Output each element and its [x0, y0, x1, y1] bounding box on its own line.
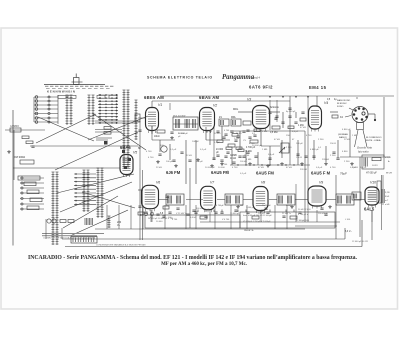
svg-text:0,1 μF: 0,1 μF [170, 149, 177, 151]
svg-text:Sintonia: Sintonia [270, 106, 279, 109]
svg-text:4 700: 4 700 [146, 151, 152, 153]
svg-text:o 0,05: o 0,05 [385, 157, 392, 159]
svg-text:M2UF: M2UF [286, 205, 292, 207]
svg-text:150 Ω: 150 Ω [296, 157, 302, 159]
svg-text:47 kΩ: 47 kΩ [300, 127, 306, 129]
svg-text:10 000: 10 000 [214, 133, 221, 135]
svg-text:10 000 μF: 10 000 μF [230, 213, 240, 215]
svg-text:3,2Ω: 3,2Ω [385, 192, 390, 194]
svg-text:100 kΩ: 100 kΩ [258, 213, 265, 215]
svg-text:22 kΩ: 22 kΩ [204, 209, 210, 211]
svg-text:10 000 μF: 10 000 μF [178, 133, 189, 135]
svg-text:o kΩ: o kΩ [385, 204, 390, 206]
svg-text:4 700: 4 700 [232, 167, 238, 169]
svg-text:CV: CV [243, 140, 247, 142]
svg-text:2 200: 2 200 [330, 155, 336, 157]
svg-text:2 MΩ: 2 MΩ [246, 151, 252, 153]
svg-text:Pangamma: Pangamma [222, 74, 255, 81]
svg-text:6,8 kΩ: 6,8 kΩ [190, 217, 197, 219]
svg-text:K E N N W W N B I N: K E N N W W N B I N [47, 90, 75, 94]
svg-text:2 200: 2 200 [318, 139, 324, 141]
svg-text:100 pF: 100 pF [196, 161, 203, 163]
svg-text:FONO: FONO [337, 106, 344, 108]
svg-text:V~: V~ [117, 224, 121, 227]
svg-text:V8: V8 [261, 181, 265, 185]
svg-text:4 700: 4 700 [330, 167, 336, 169]
svg-text:100 pF: 100 pF [296, 143, 303, 145]
svg-text:10 kΩ 12 000: 10 kΩ 12 000 [298, 209, 311, 211]
svg-text:4 700 μF: 4 700 μF [246, 147, 256, 149]
svg-text:0,5 MΩ: 0,5 MΩ [270, 132, 278, 134]
svg-text:V4: V4 [324, 101, 328, 105]
svg-text:47 kΩ: 47 kΩ [274, 139, 280, 141]
svg-text:0,1 μF: 0,1 μF [240, 173, 247, 175]
svg-text:V2: V2 [213, 104, 217, 108]
svg-text:10 kΩ: 10 kΩ [230, 158, 236, 160]
svg-text:10kΩ: 10kΩ [154, 136, 160, 138]
svg-text:V6: V6 [156, 181, 160, 185]
svg-text:0,1 μF: 0,1 μF [200, 149, 207, 151]
svg-text:47 kΩ: 47 kΩ [258, 167, 264, 169]
svg-text:6J6 FM: 6J6 FM [166, 170, 181, 175]
svg-text:47 kΩ: 47 kΩ [286, 167, 292, 169]
svg-text:100 kΩ: 100 kΩ [196, 208, 203, 210]
svg-text:22 00: 22 00 [244, 155, 250, 157]
svg-text:6 800: 6 800 [342, 151, 348, 153]
svg-text:22 kΩ: 22 kΩ [186, 155, 192, 157]
svg-text:220 kΩ: 220 kΩ [322, 159, 329, 161]
svg-text:4 700μF: 4 700μF [216, 205, 224, 207]
svg-text:150 Ω: 150 Ω [330, 143, 336, 145]
svg-text:4 700: 4 700 [148, 157, 154, 159]
svg-text:6AT6 9FI2: 6AT6 9FI2 [249, 85, 273, 90]
svg-text:220 kΩ: 220 kΩ [300, 169, 307, 171]
svg-text:1 000: 1 000 [234, 138, 240, 140]
svg-text:6AU5 FM: 6AU5 FM [256, 171, 274, 176]
svg-text:IN CORRIDOIO: IN CORRIDOIO [366, 137, 382, 139]
svg-text:V9: V9 [319, 181, 323, 185]
svg-text:4 700: 4 700 [224, 130, 230, 132]
svg-text:4 700 μF σ: 4 700 μF σ [298, 214, 309, 216]
svg-text:RADIOFONO: RADIOFONO [337, 99, 351, 102]
svg-text:SURR: SURR [372, 165, 378, 167]
svg-text:6AL5: 6AL5 [364, 207, 375, 212]
svg-text:24 000: 24 000 [216, 149, 224, 151]
svg-text:CONDENSATORE VARIABILE A 3 SEZ: CONDENSATORE VARIABILE A 3 SEZIONI PER A… [96, 243, 146, 246]
svg-text:V 4 700: V 4 700 [222, 219, 230, 221]
svg-text:1 000 μF: 1 000 μF [246, 207, 255, 209]
svg-text:100 pF: 100 pF [166, 161, 173, 163]
svg-text:1 MΩ: 1 MΩ [262, 131, 268, 133]
svg-text:(NORMAL: (NORMAL [338, 133, 349, 136]
svg-text:fase 1000 μF 100 kΩ 12 000: fase 1000 μF 100 kΩ 12 000μF [243, 215, 273, 217]
svg-text:V5: V5 [133, 151, 137, 155]
svg-text:MDL: MDL [233, 108, 239, 111]
svg-text:2 200: 2 200 [344, 161, 350, 163]
svg-text:6p 100 pF: 6p 100 pF [286, 111, 296, 113]
svg-text:10 000 μF: 10 000 μF [205, 167, 216, 169]
svg-text:10 000μF: 10 000μF [262, 205, 272, 207]
svg-text:0,5 μF: 0,5 μF [292, 131, 299, 133]
svg-text:V1: V1 [158, 103, 162, 107]
svg-text:Zoccolo visto: Zoccolo visto [357, 147, 373, 150]
svg-text:fl kΩ: fl kΩ [385, 196, 390, 198]
svg-text:CAMBIO: CAMBIO [10, 125, 19, 128]
svg-text:MUTE - LINEA: MUTE - LINEA [366, 139, 381, 142]
svg-text:0,5 μF: 0,5 μF [316, 167, 323, 169]
svg-text:1 MΩ: 1 MΩ [352, 135, 358, 137]
svg-text:FM 300Ω: FM 300Ω [14, 155, 25, 159]
svg-text:22 kΩ/ Yε: 22 kΩ/ Yε [282, 213, 291, 215]
svg-text:12 000μF 100: 12 000μF 100 [296, 220, 310, 222]
svg-text:24 000 μF 10 000 μF 4 70: 24 000 μF 10 000 μF 4 700 [148, 218, 174, 220]
svg-text:mod.4: mod.4 [252, 76, 260, 80]
svg-text:22 kΩ: 22 kΩ [206, 131, 212, 133]
svg-text:6,3 V~: 6,3 V~ [345, 231, 352, 233]
svg-text:V1 000μF 4 700μF V 2 000μF: V1 000μF 4 700μF V 2 000μF [243, 221, 271, 223]
svg-text:0,5 μF: 0,5 μF [268, 154, 275, 156]
svg-text:4 700: 4 700 [306, 135, 312, 137]
svg-text:0,5 μF: 0,5 μF [360, 167, 367, 169]
svg-text:EM4 15: EM4 15 [309, 85, 327, 90]
svg-text:0,1 μF: 0,1 μF [214, 142, 221, 144]
svg-text:L 100: L 100 [345, 219, 351, 221]
svg-text:SCHEMA ELETTRICO TELAIO: SCHEMA ELETTRICO TELAIO [147, 76, 213, 80]
svg-text:IN RICEV.: IN RICEV. [337, 103, 347, 105]
svg-text:H7 000 μF: H7 000 μF [366, 173, 377, 175]
svg-text:1 000: 1 000 [238, 205, 244, 207]
svg-text:MDL: MDL [231, 117, 237, 119]
svg-text:CAMB: CAMB [230, 154, 237, 157]
svg-text:fk: fk [138, 146, 141, 150]
svg-text:22 kΩ: 22 kΩ [344, 139, 350, 141]
svg-text:V10: V10 [370, 181, 376, 185]
svg-text:6 800 μF: 6 800 μF [310, 149, 319, 151]
svg-text:MF per AM a 460 kc, per FM a 1: MF per AM a 460 kc, per FM a 10,7 Mc. [161, 262, 248, 267]
svg-text:10 000: 10 000 [156, 221, 163, 223]
svg-text:22 kΩ: 22 kΩ [156, 167, 162, 169]
svg-text:10 000: 10 000 [218, 167, 225, 169]
svg-text:V7: V7 [210, 181, 214, 185]
svg-text:12 000 μF 50 CR: 12 000 μF 50 CR [352, 241, 368, 243]
svg-text:1 MΩ: 1 MΩ [246, 159, 252, 161]
svg-text:1 MΩ: 1 MΩ [262, 149, 268, 151]
svg-text:79μF: 79μF [340, 172, 347, 176]
svg-text:NMKA T.A: NMKA T.A [244, 229, 254, 232]
svg-text:INCARADIO - Serie PANGAMMA - S: INCARADIO - Serie PANGAMMA - Schema del … [28, 255, 358, 261]
svg-text:W CR: W CR [386, 173, 392, 175]
svg-text:lato sotto: lato sotto [358, 151, 369, 154]
svg-text:150 Ω: 150 Ω [352, 167, 358, 169]
svg-text:6AU5 F M: 6AU5 F M [311, 171, 331, 176]
svg-text:V 22 kΩ/ Yε: V 22 kΩ/ Yε [176, 213, 187, 215]
